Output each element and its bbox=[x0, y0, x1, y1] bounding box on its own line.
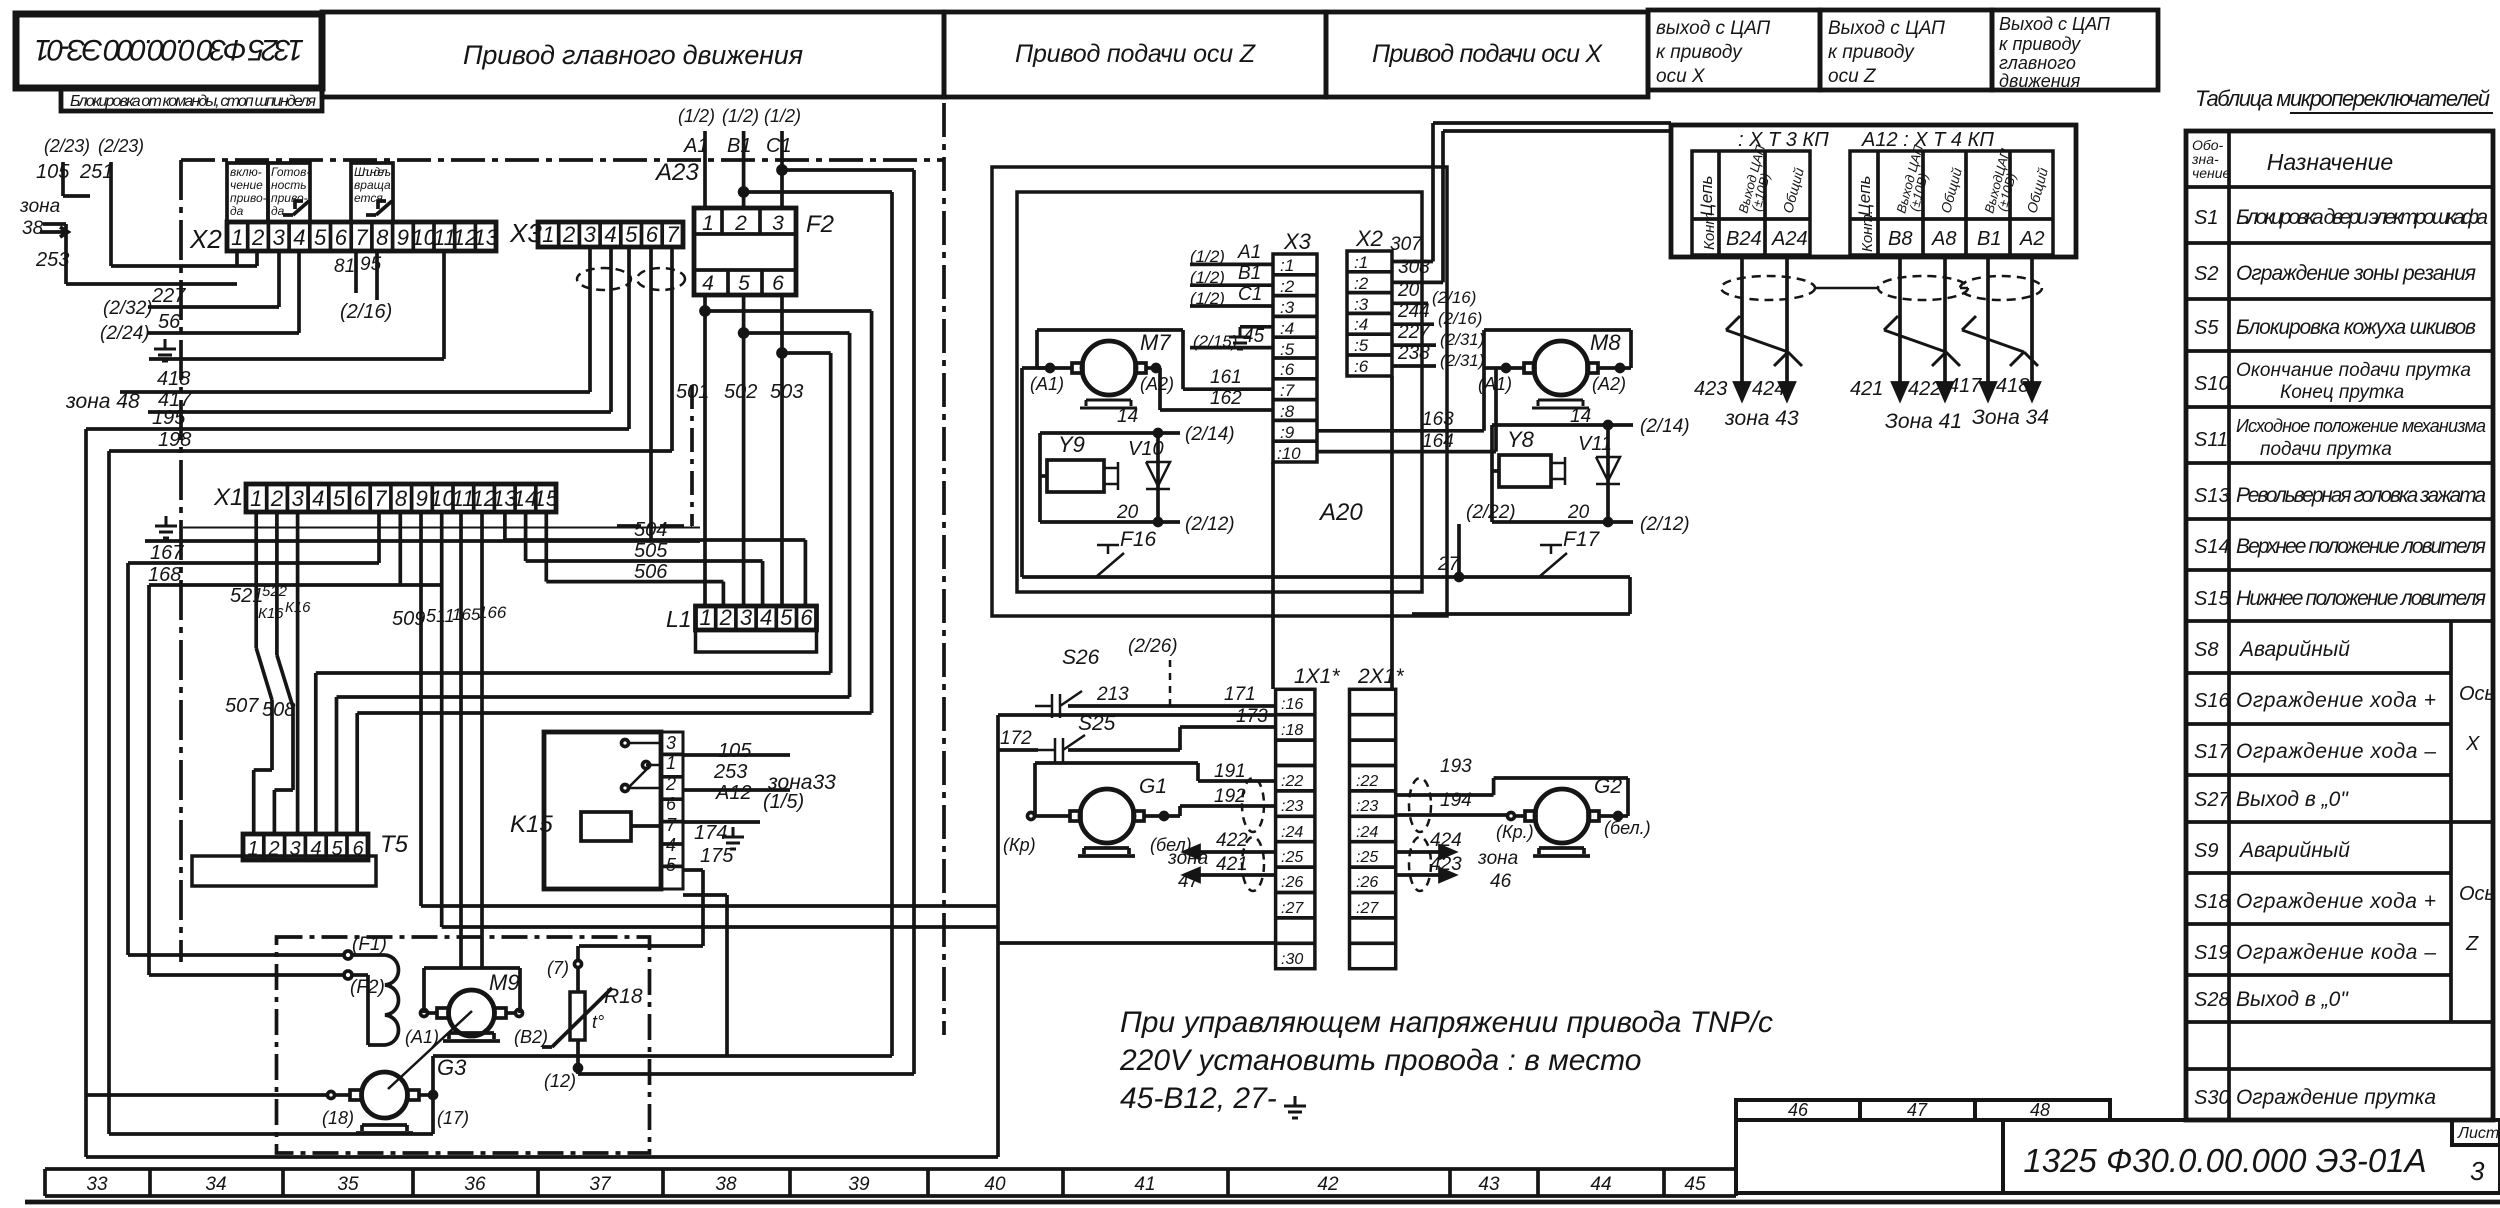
svg-text:R18: R18 bbox=[604, 985, 643, 1008]
svg-text:1: 1 bbox=[699, 605, 711, 630]
svg-text:Общий: Общий bbox=[2023, 166, 2050, 215]
svg-text:А24: А24 bbox=[1771, 228, 1808, 250]
svg-text:9: 9 bbox=[397, 225, 409, 250]
svg-text:2: 2 bbox=[719, 605, 732, 630]
svg-text:174: 174 bbox=[694, 822, 727, 844]
svg-text:33: 33 bbox=[86, 1174, 108, 1195]
svg-text::4: :4 bbox=[1354, 315, 1368, 334]
svg-text:Блокировка двери электрошкафа: Блокировка двери электрошкафа bbox=[2236, 206, 2488, 229]
svg-text:Блокировка кожуха шкивов: Блокировка кожуха шкивов bbox=[2236, 316, 2476, 339]
svg-text:S19: S19 bbox=[2194, 942, 2230, 964]
svg-text:F17: F17 bbox=[1563, 528, 1601, 551]
svg-text:S26: S26 bbox=[1062, 646, 1100, 669]
svg-text:1: 1 bbox=[666, 753, 676, 773]
svg-text:Выход в „0": Выход в „0" bbox=[2236, 988, 2349, 1011]
svg-text:2: 2 bbox=[270, 486, 283, 511]
svg-text:S11: S11 bbox=[2194, 429, 2228, 451]
svg-text:V10: V10 bbox=[1128, 438, 1164, 460]
svg-text:418: 418 bbox=[1996, 375, 2029, 397]
svg-text:220V установить провода : в: 220V установить провода : в место bbox=[1119, 1044, 1641, 1077]
svg-text:да: да bbox=[271, 204, 285, 218]
svg-text:S30: S30 bbox=[2194, 1087, 2230, 1109]
svg-text:S14: S14 bbox=[2194, 536, 2230, 558]
svg-text:162: 162 bbox=[1210, 388, 1242, 409]
svg-text:56: 56 bbox=[158, 311, 181, 333]
svg-text::23: :23 bbox=[1356, 798, 1378, 815]
svg-text:5: 5 bbox=[625, 222, 638, 247]
svg-text:X3: X3 bbox=[509, 218, 542, 248]
svg-text:Общий: Общий bbox=[1937, 166, 1964, 215]
svg-text:(1/2): (1/2) bbox=[678, 106, 715, 126]
svg-text:(2/31): (2/31) bbox=[1440, 330, 1484, 349]
svg-text:7: 7 bbox=[666, 222, 679, 247]
svg-text::25: :25 bbox=[1356, 849, 1378, 866]
svg-text:Ограждение прутка: Ограждение прутка bbox=[2236, 1086, 2436, 1109]
svg-text:509: 509 bbox=[392, 608, 425, 630]
svg-text:15: 15 bbox=[533, 486, 558, 511]
svg-text::7: :7 bbox=[1280, 381, 1295, 400]
svg-text::10: :10 bbox=[1277, 444, 1301, 463]
svg-text::9: :9 bbox=[1280, 423, 1295, 442]
svg-text:418: 418 bbox=[157, 368, 190, 390]
svg-text:Назначение: Назначение bbox=[2267, 149, 2393, 175]
svg-text:В24: В24 bbox=[1726, 228, 1762, 250]
svg-text:(бел.): (бел.) bbox=[1604, 818, 1651, 838]
svg-text:S5: S5 bbox=[2194, 317, 2219, 339]
svg-text:198: 198 bbox=[158, 429, 191, 451]
svg-text:к приводу: к приводу bbox=[1999, 34, 2081, 54]
svg-text:424: 424 bbox=[1430, 830, 1462, 851]
svg-text:1: 1 bbox=[702, 212, 714, 235]
svg-text:46: 46 bbox=[1788, 1100, 1809, 1120]
svg-text:оси Z: оси Z bbox=[1828, 66, 1877, 87]
svg-text:В1: В1 bbox=[1238, 263, 1261, 284]
svg-text::18: :18 bbox=[1281, 722, 1303, 739]
svg-text:4: 4 bbox=[604, 222, 616, 247]
svg-text:505: 505 bbox=[634, 540, 668, 562]
svg-text:105: 105 bbox=[36, 161, 70, 183]
svg-text:G1: G1 bbox=[1139, 775, 1167, 798]
svg-text:Ограждение хода –: Ограждение хода – bbox=[2236, 740, 2436, 763]
svg-text:43: 43 bbox=[1478, 1174, 1500, 1195]
svg-text:6: 6 bbox=[352, 838, 364, 860]
svg-text:(Кр): (Кр) bbox=[1003, 835, 1036, 855]
svg-text:Выход в „0": Выход в „0" bbox=[2236, 788, 2349, 811]
svg-text:3: 3 bbox=[292, 486, 305, 511]
svg-text:3: 3 bbox=[740, 605, 753, 630]
svg-text:1325 Ф30.0.00.000 Э3-01А: 1325 Ф30.0.00.000 Э3-01А bbox=[2023, 1142, 2426, 1179]
svg-text:зона 48: зона 48 bbox=[65, 390, 140, 413]
svg-text:166: 166 bbox=[478, 603, 507, 622]
svg-text:172: 172 bbox=[1000, 728, 1032, 749]
svg-text:5: 5 bbox=[333, 486, 346, 511]
svg-text:Цепь: Цепь bbox=[1697, 176, 1716, 216]
svg-text:Верхнее положение ловителя: Верхнее положение ловителя bbox=[2236, 535, 2486, 558]
svg-text:К16: К16 bbox=[258, 605, 284, 622]
svg-text:Привод подачи оси X: Привод подачи оси X bbox=[1372, 40, 1603, 68]
svg-text:(F2): (F2) bbox=[350, 977, 385, 998]
svg-text:6: 6 bbox=[772, 272, 784, 295]
svg-text:(2/16): (2/16) bbox=[340, 301, 392, 323]
svg-text:4: 4 bbox=[702, 272, 714, 295]
svg-text:S10: S10 bbox=[2194, 373, 2230, 395]
svg-text:34: 34 bbox=[205, 1174, 226, 1195]
svg-text:192: 192 bbox=[1214, 786, 1246, 807]
svg-text:45: 45 bbox=[1243, 326, 1265, 347]
svg-text:к приводу: к приводу bbox=[1828, 42, 1915, 63]
svg-text:175: 175 bbox=[700, 845, 734, 867]
svg-text:X: X bbox=[2465, 733, 2480, 755]
svg-text:S9: S9 bbox=[2194, 840, 2218, 862]
svg-text::1: :1 bbox=[1280, 256, 1294, 275]
svg-text:подачи прутка: подачи прутка bbox=[2260, 439, 2392, 460]
svg-text:движения: движения bbox=[1999, 71, 2081, 91]
svg-text:Таблица микропереключателей: Таблица микропереключателей bbox=[2195, 86, 2490, 111]
svg-text:95: 95 bbox=[360, 254, 382, 275]
svg-text:Шпиндель: Шпиндель bbox=[354, 165, 391, 179]
svg-text:главного: главного bbox=[1999, 53, 2076, 73]
svg-text:А8: А8 bbox=[1931, 228, 1956, 250]
svg-text:40: 40 bbox=[984, 1174, 1006, 1195]
svg-text:S15: S15 bbox=[2194, 588, 2230, 610]
svg-text:2: 2 bbox=[734, 212, 747, 235]
svg-text:(1/2): (1/2) bbox=[722, 106, 759, 126]
svg-text:168: 168 bbox=[148, 564, 181, 586]
svg-text:1: 1 bbox=[231, 225, 243, 250]
svg-text:5: 5 bbox=[314, 225, 327, 250]
svg-text:А20: А20 bbox=[1318, 499, 1363, 526]
svg-text:С1: С1 bbox=[1238, 284, 1262, 305]
svg-text:В1: В1 bbox=[1977, 228, 2001, 250]
svg-text:4: 4 bbox=[760, 605, 772, 630]
svg-text:2: 2 bbox=[562, 222, 575, 247]
svg-text::23: :23 bbox=[1281, 798, 1303, 815]
svg-text:Привод главного движения: Привод главного движения bbox=[463, 40, 803, 70]
svg-text:Окончание подачи прутка: Окончание подачи прутка bbox=[2236, 360, 2471, 381]
svg-text:8: 8 bbox=[376, 225, 389, 250]
svg-text:307: 307 bbox=[1390, 234, 1423, 255]
svg-text:508: 508 bbox=[262, 699, 295, 721]
svg-text:81: 81 bbox=[334, 256, 355, 277]
svg-text:Х2: Х2 bbox=[1355, 226, 1383, 251]
svg-text:171: 171 bbox=[1224, 684, 1256, 705]
svg-text:227: 227 bbox=[151, 285, 186, 307]
svg-text:Аварийный: Аварийный bbox=[2238, 638, 2350, 661]
svg-text:193: 193 bbox=[1440, 756, 1472, 777]
svg-text:20: 20 bbox=[1567, 502, 1590, 523]
svg-text:М8: М8 bbox=[1590, 330, 1621, 355]
svg-text:ность: ность bbox=[271, 178, 307, 192]
svg-text:37: 37 bbox=[589, 1174, 612, 1195]
svg-text:L1: L1 bbox=[666, 606, 692, 632]
svg-text:20: 20 bbox=[1116, 502, 1139, 523]
svg-text:зона 43: зона 43 bbox=[1724, 407, 1799, 430]
svg-text:приво-: приво- bbox=[230, 191, 267, 205]
svg-text:(2/22): (2/22) bbox=[1466, 502, 1516, 523]
svg-text:(А2): (А2) bbox=[1140, 374, 1174, 394]
svg-text::22: :22 bbox=[1356, 773, 1378, 790]
svg-text:G2: G2 bbox=[1594, 775, 1622, 798]
svg-text:5: 5 bbox=[666, 855, 677, 875]
svg-text:422: 422 bbox=[1908, 378, 1941, 400]
svg-text:чение: чение bbox=[230, 178, 263, 192]
svg-text:167: 167 bbox=[150, 542, 184, 564]
svg-text:Выход с ЦАП: Выход с ЦАП bbox=[1999, 14, 2111, 34]
svg-text:105: 105 bbox=[718, 740, 752, 762]
svg-text:t°: t° bbox=[592, 1012, 604, 1032]
svg-text:4: 4 bbox=[666, 835, 676, 855]
svg-text:3: 3 bbox=[772, 212, 784, 235]
svg-text:1: 1 bbox=[247, 838, 258, 860]
svg-text:(Кр.): (Кр.) bbox=[1496, 822, 1534, 842]
svg-text:3: 3 bbox=[273, 225, 286, 250]
svg-text:(А1): (А1) bbox=[1030, 374, 1064, 394]
svg-text:Привод подачи оси Z: Привод подачи оси Z bbox=[1015, 40, 1256, 68]
svg-text:7: 7 bbox=[355, 225, 368, 250]
svg-text:(1/2): (1/2) bbox=[1190, 268, 1225, 287]
svg-text:Револьверная головка зажата: Револьверная головка зажата bbox=[2236, 484, 2486, 507]
svg-text:522: 522 bbox=[262, 583, 288, 600]
svg-text:2Х1*: 2Х1* bbox=[1357, 665, 1404, 688]
svg-text:А2: А2 bbox=[2019, 228, 2044, 250]
svg-text:M9: M9 bbox=[489, 970, 520, 995]
svg-text:5: 5 bbox=[331, 838, 343, 860]
svg-text:(2/14): (2/14) bbox=[1185, 424, 1235, 445]
svg-text:3: 3 bbox=[666, 733, 676, 753]
svg-text:S1: S1 bbox=[2194, 207, 2218, 229]
svg-text:(2/15): (2/15) bbox=[1193, 332, 1237, 351]
svg-text:Ось: Ось bbox=[2459, 683, 2495, 705]
svg-text:45-В12, 27-: 45-В12, 27- bbox=[1120, 1082, 1277, 1115]
svg-text:4: 4 bbox=[293, 225, 305, 250]
svg-text::24: :24 bbox=[1281, 824, 1303, 841]
svg-text:S27: S27 bbox=[2194, 789, 2230, 811]
svg-text:F2: F2 bbox=[806, 211, 834, 238]
svg-text:Цепь: Цепь bbox=[1855, 176, 1874, 216]
svg-text:5: 5 bbox=[738, 272, 750, 295]
svg-text::26: :26 bbox=[1356, 874, 1378, 891]
svg-text:да: да bbox=[230, 204, 244, 218]
svg-text:зона: зона bbox=[1167, 848, 1208, 869]
svg-text:(2/32): (2/32) bbox=[103, 298, 153, 319]
svg-text:Ось: Ось bbox=[2459, 883, 2495, 905]
svg-text:38: 38 bbox=[22, 218, 44, 239]
svg-text:S25: S25 bbox=[1078, 712, 1116, 735]
svg-text::27: :27 bbox=[1356, 900, 1379, 917]
svg-text:Конт.: Конт. bbox=[1859, 210, 1876, 252]
svg-text:зона: зона bbox=[19, 196, 60, 217]
svg-text:421: 421 bbox=[1850, 378, 1883, 400]
svg-text:5: 5 bbox=[780, 605, 793, 630]
svg-text:14: 14 bbox=[1117, 406, 1138, 427]
svg-text:2: 2 bbox=[267, 838, 279, 860]
svg-text::25: :25 bbox=[1281, 849, 1303, 866]
svg-text:(12): (12) bbox=[544, 1071, 576, 1091]
svg-text:191: 191 bbox=[1214, 761, 1246, 782]
svg-text:9: 9 bbox=[416, 486, 428, 511]
svg-text::3: :3 bbox=[1280, 298, 1295, 317]
svg-text:6: 6 bbox=[335, 225, 348, 250]
svg-text:Конец прутка: Конец прутка bbox=[2280, 382, 2404, 403]
svg-text:417: 417 bbox=[1948, 375, 1982, 397]
svg-text:(2/31): (2/31) bbox=[1440, 351, 1484, 370]
svg-text:506: 506 bbox=[634, 561, 668, 583]
svg-text:А12 : Х Т 4 КП: А12 : Х Т 4 КП bbox=[1861, 129, 1994, 151]
svg-text:(F1): (F1) bbox=[352, 934, 387, 955]
svg-text:(1/2): (1/2) bbox=[1190, 247, 1225, 266]
svg-text:423: 423 bbox=[1430, 854, 1462, 875]
svg-text:K15: K15 bbox=[510, 811, 553, 838]
svg-text:251: 251 bbox=[79, 161, 113, 183]
svg-text:253: 253 bbox=[35, 249, 69, 271]
svg-text:44: 44 bbox=[1590, 1174, 1611, 1195]
svg-text:G3: G3 bbox=[437, 1055, 467, 1080]
svg-text:507: 507 bbox=[225, 695, 259, 717]
svg-text:(2/16): (2/16) bbox=[1432, 288, 1476, 307]
svg-text:173: 173 bbox=[1236, 706, 1268, 727]
svg-text::6: :6 bbox=[1280, 360, 1295, 379]
svg-text:35: 35 bbox=[337, 1174, 359, 1195]
svg-text:X1: X1 bbox=[213, 484, 243, 511]
svg-text:А1: А1 bbox=[683, 135, 708, 157]
svg-text:Z: Z bbox=[2465, 933, 2479, 955]
svg-text:М7: М7 bbox=[1140, 330, 1171, 355]
svg-text:к приводу: к приводу bbox=[1656, 42, 1743, 63]
svg-text:Блокировка от команды, стоп шп: Блокировка от команды, стоп шпинделя bbox=[70, 93, 316, 110]
svg-text:Выход с ЦАП: Выход с ЦАП bbox=[1828, 18, 1945, 39]
svg-text:Зона 34: Зона 34 bbox=[1972, 406, 2049, 429]
svg-text::3: :3 bbox=[1354, 295, 1369, 314]
svg-text::22: :22 bbox=[1281, 773, 1303, 790]
svg-text:6: 6 bbox=[354, 486, 367, 511]
svg-text:38: 38 bbox=[715, 1174, 737, 1195]
svg-text:41: 41 bbox=[1134, 1174, 1155, 1195]
svg-text:В1: В1 bbox=[727, 135, 751, 157]
svg-text:(2/23): (2/23) bbox=[44, 136, 90, 156]
svg-text:421: 421 bbox=[1216, 854, 1248, 875]
svg-text::30: :30 bbox=[1281, 951, 1303, 968]
svg-text:4: 4 bbox=[310, 838, 321, 860]
svg-text:2: 2 bbox=[251, 225, 264, 250]
svg-text:194: 194 bbox=[1440, 790, 1472, 811]
svg-text:253: 253 bbox=[713, 761, 747, 783]
svg-text:S28: S28 bbox=[2194, 989, 2230, 1011]
svg-text:Общий: Общий bbox=[1779, 166, 1806, 215]
svg-text:В8: В8 bbox=[1888, 228, 1912, 250]
svg-text:Исходное положение механизма: Исходное положение механизма bbox=[2236, 416, 2486, 436]
svg-text:S18: S18 bbox=[2194, 891, 2230, 913]
svg-text::16: :16 bbox=[1281, 696, 1303, 713]
svg-text:7: 7 bbox=[666, 815, 677, 835]
svg-text:14: 14 bbox=[1570, 406, 1591, 427]
svg-text:3: 3 bbox=[2470, 1156, 2485, 1186]
svg-text:выход с ЦАП: выход с ЦАП bbox=[1656, 18, 1770, 39]
svg-text::1: :1 bbox=[1354, 253, 1368, 272]
svg-text:(17): (17) bbox=[437, 1108, 469, 1128]
svg-text:13: 13 bbox=[474, 225, 499, 250]
svg-text:(2/14): (2/14) bbox=[1640, 416, 1690, 437]
svg-text:(2/23): (2/23) bbox=[98, 136, 144, 156]
svg-text:1: 1 bbox=[542, 222, 554, 247]
svg-text::27: :27 bbox=[1281, 900, 1304, 917]
svg-text:A23: A23 bbox=[654, 159, 699, 186]
svg-text:оси X: оси X bbox=[1656, 66, 1706, 87]
svg-text:Конт: Конт bbox=[1701, 212, 1718, 250]
svg-text:V11: V11 bbox=[1578, 433, 1612, 455]
svg-text::26: :26 bbox=[1281, 874, 1303, 891]
svg-text:(2/12): (2/12) bbox=[1185, 514, 1235, 535]
svg-text:503: 503 bbox=[770, 381, 803, 403]
svg-text:161: 161 bbox=[1210, 367, 1242, 388]
svg-text:(1/5): (1/5) bbox=[763, 791, 804, 813]
svg-text:(А2): (А2) bbox=[1592, 374, 1626, 394]
svg-text:8: 8 bbox=[395, 486, 408, 511]
svg-text:1325 Ф30 0.00.000 ЭЗ-01: 1325 Ф30 0.00.000 ЭЗ-01 bbox=[34, 33, 304, 66]
svg-text:F16: F16 bbox=[1120, 528, 1157, 551]
svg-text:S17: S17 bbox=[2194, 741, 2230, 763]
svg-text:Аварийный: Аварийный bbox=[2238, 839, 2350, 862]
svg-text:423: 423 bbox=[1694, 378, 1727, 400]
svg-text:Готов-: Готов- bbox=[271, 165, 310, 179]
svg-text:39: 39 bbox=[848, 1174, 870, 1195]
svg-text:Зона 41: Зона 41 bbox=[1885, 410, 1962, 433]
svg-text:Лист: Лист bbox=[2457, 1125, 2499, 1142]
svg-text:46: 46 bbox=[1490, 871, 1512, 892]
svg-text:Нижнее положение ловителя: Нижнее положение ловителя bbox=[2236, 587, 2486, 610]
svg-text:6: 6 bbox=[666, 794, 677, 814]
svg-text:502: 502 bbox=[724, 381, 757, 403]
svg-text:(7): (7) bbox=[547, 958, 569, 978]
svg-text:S8: S8 bbox=[2194, 639, 2218, 661]
svg-text:47: 47 bbox=[1907, 1100, 1928, 1120]
svg-text:7: 7 bbox=[374, 486, 387, 511]
svg-text:чение: чение bbox=[2192, 165, 2231, 181]
svg-text:27: 27 bbox=[1437, 554, 1461, 575]
svg-text:(B2): (B2) bbox=[514, 1027, 548, 1047]
svg-text:(1/2): (1/2) bbox=[764, 106, 801, 126]
svg-text::5: :5 bbox=[1354, 336, 1369, 355]
svg-text:враща: враща bbox=[354, 178, 391, 192]
svg-text:2: 2 bbox=[665, 774, 676, 794]
svg-text:X2: X2 bbox=[189, 224, 222, 254]
svg-text:приво-: приво- bbox=[271, 191, 308, 205]
svg-text:6: 6 bbox=[800, 605, 813, 630]
svg-text:С1: С1 bbox=[766, 135, 792, 157]
svg-text:163: 163 bbox=[1422, 409, 1454, 430]
svg-text:45: 45 bbox=[1684, 1174, 1706, 1195]
svg-text:(18): (18) bbox=[322, 1108, 354, 1128]
svg-text:48: 48 bbox=[2030, 1100, 2050, 1120]
svg-text:(1/2): (1/2) bbox=[1190, 289, 1225, 308]
svg-text:424: 424 bbox=[1752, 378, 1785, 400]
svg-text:Х3: Х3 bbox=[1283, 229, 1312, 254]
svg-text:36: 36 bbox=[464, 1174, 486, 1195]
svg-text:А12: А12 bbox=[715, 782, 752, 804]
svg-text:Ограждение хода +: Ограждение хода + bbox=[2236, 689, 2436, 712]
svg-text:вклю-: вклю- bbox=[230, 165, 262, 179]
svg-text:6: 6 bbox=[646, 222, 659, 247]
svg-text:(А1): (А1) bbox=[1478, 374, 1512, 394]
svg-text:ется: ется bbox=[354, 191, 383, 205]
svg-text:Ограждение хода +: Ограждение хода + bbox=[2236, 890, 2436, 913]
svg-text:504: 504 bbox=[634, 519, 667, 541]
svg-text::5: :5 bbox=[1280, 340, 1295, 359]
svg-text:К16: К16 bbox=[285, 599, 311, 616]
svg-text:422: 422 bbox=[1216, 830, 1248, 851]
svg-text:42: 42 bbox=[1317, 1174, 1339, 1195]
svg-text:1: 1 bbox=[250, 486, 262, 511]
svg-text:S2: S2 bbox=[2194, 263, 2218, 285]
